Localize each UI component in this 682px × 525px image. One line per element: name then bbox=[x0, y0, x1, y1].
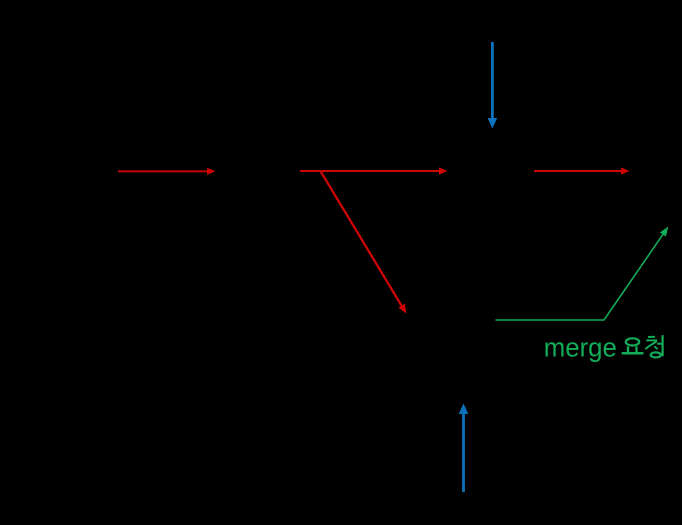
svg-text:merge: merge bbox=[544, 332, 617, 362]
red arrow right horizontal bbox=[534, 167, 630, 174]
blue arrow down (top, into master line) bbox=[488, 42, 498, 129]
blue arrow up (bottom, into branch line) bbox=[459, 404, 469, 493]
red arrow left horizontal bbox=[118, 168, 216, 175]
red arrow middle horizontal bbox=[300, 167, 448, 174]
green merge-request polyline bbox=[496, 227, 669, 321]
red arrow diagonal (branch off) bbox=[321, 172, 406, 314]
green label hangul: 요 bbox=[622, 338, 644, 353]
green label hangul: 청 bbox=[645, 335, 662, 357]
